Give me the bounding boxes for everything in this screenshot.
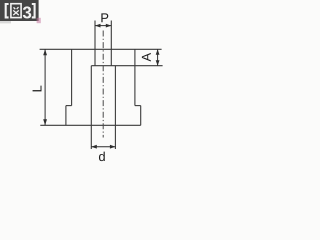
label bracket right 】 — [32, 4, 35, 17]
label kanji 図 — [11, 4, 21, 18]
left lower wall — [65, 106, 67, 126]
L dimension line — [43, 49, 47, 125]
scan artifact (pink smudge) — [37, 18, 41, 23]
right upper wall — [134, 49, 136, 105]
P dimension line — [95, 24, 111, 28]
slot narrow right wall + P extension line — [110, 21, 112, 66]
label digit 3 — [23, 6, 31, 18]
right lower wall — [140, 106, 142, 126]
centerline (dash-dot) — [102, 31, 104, 138]
label bracket left 【 — [6, 4, 9, 17]
left upper wall — [71, 49, 73, 105]
label L (rotated) — [33, 86, 42, 92]
label P — [101, 13, 108, 22]
label d — [99, 152, 105, 162]
A dimension line — [156, 49, 160, 65]
left step — [66, 105, 72, 107]
slot wide left wall + d extension line — [90, 66, 92, 149]
paper background — [0, 0, 195, 166]
figure label box 【図3】 — [0, 0, 39, 21]
slot narrow left wall + P extension line — [94, 21, 96, 66]
slot wide right wall + d extension line — [114, 66, 116, 149]
slot shoulder line with A extension (y=65.7) — [91, 65, 162, 67]
d dimension line — [91, 145, 115, 149]
right step — [135, 105, 141, 107]
bottom line with L extension (y=125.3) — [40, 124, 140, 126]
label A (rotated) — [142, 53, 151, 62]
top surface line with L/A extension (y=49.3) — [40, 48, 162, 50]
